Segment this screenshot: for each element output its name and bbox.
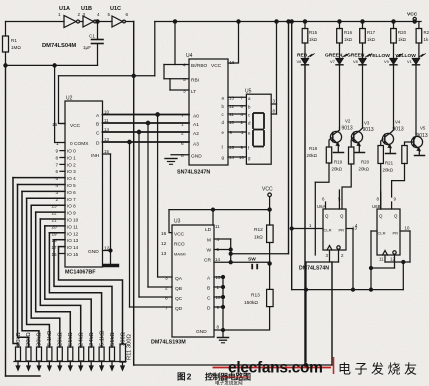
svg-text:8: 8	[273, 109, 276, 114]
wire U6B Q9 upper	[391, 181, 393, 197]
svg-text:GND: GND	[196, 329, 207, 335]
node junction GND pin12	[109, 249, 112, 252]
LED V2 green	[339, 43, 341, 58]
wire QA stub	[158, 276, 172, 278]
resistor R21b base	[402, 146, 407, 164]
transistor V4 9013	[382, 133, 393, 144]
svg-text:VCC: VCC	[407, 12, 418, 18]
resistor RS3	[37, 347, 42, 361]
wire VCC distribution horizontal	[169, 209, 270, 211]
wire bundle stub k8	[49, 232, 65, 234]
svg-text:20kΩ: 20kΩ	[307, 153, 318, 158]
svg-text:7: 7	[241, 96, 244, 101]
wire QB riser to bus A1	[147, 123, 149, 287]
wire bundle k2	[22, 191, 39, 347]
wire R13 top lead	[269, 264, 271, 290]
node junction bus A0	[156, 113, 159, 116]
svg-text:12: 12	[229, 104, 234, 109]
rotated resistor values	[16, 330, 133, 360]
svg-text:51kΩ: 51kΩ	[110, 332, 116, 346]
node junction C1 top	[96, 20, 99, 23]
svg-text:5.1kΩ: 5.1kΩ	[47, 330, 53, 346]
svg-text:2: 2	[56, 197, 59, 202]
wire C1 bottom lead	[97, 44, 99, 65]
wire U6A CLK pin3 down	[329, 250, 331, 262]
wire U3 pin5 up	[214, 249, 231, 251]
svg-text:9013: 9013	[342, 126, 353, 132]
svg-text:10: 10	[239, 155, 244, 160]
svg-text:QD: QD	[175, 306, 183, 312]
svg-text:V5: V5	[420, 126, 426, 131]
node junction R1/feedback	[4, 64, 7, 67]
resistor R12	[267, 225, 274, 243]
wire QB stub	[148, 286, 172, 288]
svg-text:18: 18	[52, 238, 58, 243]
wire U6A Q6 stub	[325, 202, 327, 209]
svg-text:GND: GND	[88, 249, 99, 255]
wire bundle stub k6	[40, 218, 65, 220]
wire resistor row bottom rail	[14, 361, 126, 363]
svg-text:8: 8	[377, 197, 380, 202]
svg-text:图2: 图2	[177, 372, 192, 382]
svg-text:16: 16	[52, 252, 58, 257]
svg-text:15: 15	[52, 122, 58, 128]
resistor RS10	[110, 347, 115, 361]
svg-text:1: 1	[181, 122, 184, 128]
svg-text:22: 22	[52, 211, 58, 216]
wire VCC feed riser to top rail	[154, 22, 156, 76]
svg-text:7: 7	[165, 306, 168, 312]
wire U4 GND stub	[171, 154, 189, 156]
wire up feed vertical	[288, 22, 290, 254]
wire bundle stub k5	[36, 211, 65, 213]
svg-text:30kΩ: 30kΩ	[37, 332, 43, 346]
resistor R17	[362, 22, 364, 29]
wire bundle stub k1	[18, 184, 66, 186]
svg-text:11: 11	[379, 257, 384, 262]
wire bundle k7	[45, 226, 91, 347]
wire U6B D pin12 down	[394, 255, 396, 268]
wire bundle k5	[36, 212, 71, 347]
svg-text:INH: INH	[91, 153, 100, 159]
svg-text:6: 6	[165, 296, 168, 302]
node junction gnd rail	[222, 329, 225, 332]
svg-text:5: 5	[56, 176, 59, 181]
svg-text:VCC: VCC	[211, 63, 222, 69]
svg-text:PR: PR	[339, 228, 345, 233]
node junction rail R20	[392, 20, 395, 23]
svg-text:6: 6	[56, 169, 59, 174]
wire U6A CLR pin1	[292, 228, 323, 230]
svg-text:15: 15	[104, 149, 109, 154]
svg-text:9: 9	[56, 149, 59, 154]
node junction rail at pin16	[237, 20, 240, 23]
svg-text:U4: U4	[186, 53, 193, 59]
svg-text:R15: R15	[309, 30, 318, 35]
wire U6B CLR pin13	[371, 230, 377, 232]
svg-text:QA: QA	[175, 276, 183, 282]
wire U4 out e	[228, 131, 246, 133]
svg-text:RED: RED	[297, 53, 308, 59]
resistor R19 base	[349, 147, 354, 164]
resistor R21	[418, 22, 420, 29]
svg-text:R20: R20	[398, 30, 407, 35]
svg-text:A0: A0	[193, 114, 199, 120]
svg-text:RBI: RBI	[191, 78, 199, 84]
ground V2 emitter	[334, 152, 344, 154]
svg-text:CLR: CLR	[324, 228, 332, 233]
svg-text:7: 7	[56, 162, 59, 167]
wire up/down feed horizontal	[231, 253, 289, 255]
resistor RS2	[26, 347, 31, 361]
inverter U1A	[64, 16, 76, 28]
wire U2 pin C out	[103, 131, 190, 133]
svg-text:3: 3	[183, 89, 186, 95]
wire R1 bottom to node	[5, 52, 7, 65]
wire U4 VCC pin16	[228, 22, 239, 64]
ground U4	[165, 158, 177, 160]
svg-text:9013: 9013	[363, 127, 374, 133]
node junction sw tie	[229, 261, 232, 264]
svg-text:20: 20	[52, 224, 58, 229]
node junction rail R17	[361, 20, 364, 23]
svg-text:R16: R16	[344, 30, 353, 35]
svg-text:R18: R18	[309, 146, 318, 151]
node junction bus A2	[137, 130, 140, 133]
svg-text:CR: CR	[204, 258, 211, 264]
svg-text:R13: R13	[251, 293, 260, 299]
transistor V3 9013	[351, 131, 362, 142]
wire U2 pin15 VCC stub	[60, 123, 65, 125]
wire U4 out a to display	[228, 96, 246, 98]
resistor RS9	[99, 347, 104, 361]
node junction clock/feed	[132, 74, 135, 77]
svg-text:R1: R1	[11, 38, 17, 43]
power VCC symbol mid	[268, 193, 272, 197]
wire U4 pin5 RBI	[164, 78, 189, 80]
svg-text:V1: V1	[407, 59, 412, 64]
wire bundle k4	[31, 205, 60, 347]
wire long left vertical down page	[5, 65, 7, 376]
svg-text:8: 8	[181, 153, 184, 159]
resistor RS8	[89, 347, 94, 361]
svg-text:g: g	[222, 155, 225, 160]
wire top-left rail to U1A input	[6, 21, 65, 23]
wire QA riser to bus A0	[157, 115, 159, 278]
svg-text:IO 10: IO 10	[67, 218, 79, 223]
svg-text:V6: V6	[297, 59, 302, 64]
wire bundle k1	[18, 185, 29, 348]
svg-text:4: 4	[183, 63, 186, 69]
op-amp U3 counter DM74LS193M body	[172, 225, 214, 337]
wire U3 preset D stub	[214, 306, 223, 308]
op-amp U6A flipflop body	[323, 209, 346, 250]
svg-text:VCC: VCC	[174, 232, 185, 238]
svg-text:V8: V8	[353, 59, 358, 64]
resistor RS5	[57, 347, 62, 361]
svg-text:M: M	[207, 238, 211, 244]
node junction clr/U6A	[290, 227, 293, 230]
wire osc out to COMX	[55, 65, 65, 142]
wire display anode riser to rail	[276, 22, 278, 115]
wire R18 jog down	[315, 163, 329, 182]
svg-text:V9: V9	[384, 59, 389, 64]
resistor RS4	[47, 347, 52, 361]
wire U6A D pin2 down	[338, 250, 340, 262]
svg-text:7: 7	[181, 113, 184, 119]
svg-text:VCC: VCC	[70, 123, 81, 129]
svg-text:8: 8	[56, 155, 59, 160]
svg-text:U3: U3	[174, 219, 181, 225]
svg-text:13: 13	[352, 226, 357, 231]
wire bundle k6	[40, 219, 80, 347]
svg-text:IO 9: IO 9	[67, 211, 76, 216]
svg-text:14: 14	[104, 127, 109, 132]
wire U3 preset A stub	[214, 276, 223, 278]
wire bottom-left stub	[6, 375, 41, 377]
node junction rail353	[352, 288, 355, 291]
svg-text:2: 2	[165, 286, 168, 292]
svg-text:Q: Q	[325, 214, 329, 219]
wire U6A clk vertical to bottom	[331, 262, 333, 365]
wire bundle stub k9	[54, 239, 65, 241]
watermark divider	[333, 357, 335, 374]
svg-text:1MΩ: 1MΩ	[11, 45, 21, 50]
svg-text:20kΩ: 20kΩ	[26, 332, 32, 346]
svg-text:IO 1: IO 1	[67, 155, 76, 160]
svg-text:GREEN: GREEN	[325, 53, 343, 59]
svg-text:A3: A3	[193, 142, 199, 148]
wire link pin5-pin3	[169, 79, 171, 90]
resistor R20b base	[378, 146, 383, 164]
inverter U1C	[112, 16, 123, 27]
svg-text:IO 0: IO 0	[67, 149, 76, 154]
clk triangle U6A	[327, 246, 332, 251]
wire U6B PR loop	[409, 231, 411, 262]
svg-text:1kΩ: 1kΩ	[309, 37, 318, 42]
svg-text:b: b	[222, 104, 225, 109]
wire U6B Q9 stub	[391, 202, 393, 209]
wire bundle k3	[27, 198, 50, 347]
svg-text:13: 13	[229, 96, 234, 101]
wire link pin4-pin5	[163, 65, 165, 79]
svg-text:6: 6	[322, 197, 325, 202]
svg-text:IO 13: IO 13	[67, 238, 79, 243]
svg-text:GND: GND	[191, 154, 202, 160]
wire bundle stub k7	[45, 225, 65, 227]
wire bundle stub k4	[31, 204, 65, 206]
svg-text:R21: R21	[424, 30, 429, 35]
svg-text:6: 6	[241, 104, 244, 109]
wire left vertical from rail to R1	[5, 22, 7, 37]
svg-text:1μF: 1μF	[83, 45, 91, 50]
wire U1A out to U1B in	[80, 21, 84, 23]
resistor RS11	[120, 344, 126, 362]
svg-text:R17: R17	[367, 30, 376, 35]
wire U6A PR pin4	[346, 228, 353, 230]
node junction d link	[370, 267, 373, 270]
svg-text:R20: R20	[361, 160, 370, 165]
wire U3 preset C stub	[214, 296, 223, 298]
svg-text:R11 300Ω: R11 300Ω	[127, 334, 133, 360]
svg-text:2: 2	[78, 12, 81, 17]
svg-text:V7: V7	[330, 59, 335, 64]
svg-text:4: 4	[56, 183, 59, 188]
node junction bottom clock	[305, 364, 308, 367]
wire QD riser to bus A3	[129, 142, 131, 307]
node junction presetD	[222, 306, 225, 309]
LED V3 green	[362, 43, 364, 58]
svg-text:6: 6	[126, 12, 129, 17]
svg-text:3: 3	[56, 190, 59, 195]
svg-text:B: B	[96, 122, 99, 128]
svg-text:c: c	[222, 112, 225, 117]
LED V5 yellow	[418, 43, 420, 58]
wire U4 pin3 LT	[170, 89, 189, 91]
wire U6A bottom link	[306, 261, 339, 263]
wire U1B out to U1C in	[97, 21, 113, 23]
svg-text:YELLOW: YELLOW	[395, 53, 416, 59]
svg-text:20kΩ: 20kΩ	[332, 167, 343, 172]
svg-text:PR: PR	[393, 231, 399, 236]
svg-text:14: 14	[215, 257, 220, 262]
svg-text:11: 11	[229, 112, 234, 117]
node junction left out	[305, 288, 308, 291]
svg-text:DM74LS04M: DM74LS04M	[42, 43, 76, 49]
svg-text:CLR: CLR	[378, 231, 386, 236]
wire U1C output to clock vertical	[126, 21, 134, 23]
svg-text:LD: LD	[205, 227, 212, 233]
svg-text:6: 6	[181, 141, 184, 147]
svg-text:DM74LS193M: DM74LS193M	[151, 340, 186, 346]
svg-text:1: 1	[309, 223, 312, 228]
svg-text:VCC: VCC	[262, 187, 273, 193]
wire QC stub	[139, 296, 172, 298]
svg-text:300Ω: 300Ω	[120, 331, 126, 346]
svg-text:R12: R12	[254, 227, 263, 233]
svg-text:11: 11	[104, 118, 109, 123]
resistor R20	[393, 22, 395, 29]
wire R21b to FF Q9	[392, 164, 405, 181]
wire U2 IO stub pins top	[60, 150, 65, 152]
svg-text:5.1kΩ: 5.1kΩ	[99, 330, 105, 346]
node junction bus A1	[146, 121, 149, 124]
svg-text:1kΩ: 1kΩ	[367, 37, 376, 42]
wire QC riser to bus A2	[138, 132, 140, 297]
svg-text:V3: V3	[364, 121, 370, 126]
svg-text:16: 16	[161, 231, 167, 237]
node junction rail at U4 feed	[173, 20, 176, 23]
op-amp U2 multiplexer MC14067BF body	[65, 101, 103, 267]
svg-text:g: g	[248, 156, 251, 161]
node junction rail R16	[338, 20, 341, 23]
wire bundle k0	[13, 178, 18, 347]
svg-text:1: 1	[56, 141, 59, 147]
svg-text:10: 10	[229, 120, 234, 125]
svg-text:9: 9	[394, 197, 397, 202]
svg-text:SN74LS247N: SN74LS247N	[177, 170, 210, 176]
svg-text:9013: 9013	[417, 133, 428, 139]
wire bundle stub k3	[27, 197, 65, 199]
wire U2 INH stub	[103, 153, 111, 155]
svg-text:13: 13	[161, 251, 167, 257]
svg-text:D: D	[96, 141, 100, 147]
svg-text:c: c	[248, 113, 251, 118]
ground U3	[218, 337, 229, 339]
svg-text:IO 5: IO 5	[67, 183, 76, 188]
svg-text:A2: A2	[193, 131, 199, 137]
bubble U6B D	[393, 251, 396, 254]
svg-text:V4: V4	[395, 120, 401, 125]
wire U6B CLR riser	[370, 231, 372, 290]
node junction rail clr feed	[290, 20, 293, 23]
svg-text:11: 11	[215, 224, 220, 229]
node junction SW node	[268, 262, 271, 265]
node junction pin11	[212, 208, 215, 211]
svg-text:1kΩ: 1kΩ	[254, 235, 263, 241]
node junction presetC	[222, 296, 225, 299]
svg-text:U1C: U1C	[110, 6, 121, 12]
svg-text:DM74LS74N: DM74LS74N	[299, 266, 329, 272]
svg-text:W: W	[207, 248, 212, 254]
wire U2 INH/GND vertical	[110, 154, 112, 265]
svg-text:d: d	[248, 121, 251, 126]
svg-text:51kΩ: 51kΩ	[68, 332, 74, 346]
wire U3 pin4 down	[214, 238, 231, 240]
wire U2 pin A out	[103, 114, 190, 116]
wire U4 out d	[228, 121, 246, 123]
svg-text:15: 15	[216, 275, 221, 280]
svg-text:12: 12	[390, 257, 395, 262]
svg-text:3: 3	[83, 12, 86, 17]
svg-text:1kΩ: 1kΩ	[398, 37, 407, 42]
node junction presetB	[222, 286, 225, 289]
wire rail drop to U4 pin4	[174, 22, 176, 65]
svg-text:3: 3	[165, 276, 168, 282]
svg-text:QB: QB	[175, 286, 182, 292]
wire U2 pin B out	[103, 122, 190, 124]
op-amp U4 decoder SN74LS247N body	[189, 59, 228, 165]
wire U6B Q8 up	[380, 192, 382, 209]
wire R13 bottom to gnd rail	[214, 307, 270, 330]
svg-text:12: 12	[104, 246, 110, 252]
svg-text:U6B: U6B	[372, 204, 381, 209]
node junction VCC/dist	[268, 208, 271, 211]
resistor RS7	[79, 347, 84, 361]
svg-text:U2: U2	[66, 96, 73, 102]
svg-text:1kΩ: 1kΩ	[344, 37, 353, 42]
wire preset tie-down vertical	[222, 277, 224, 337]
transistor V5 9013	[411, 136, 422, 147]
svg-text:20kΩ: 20kΩ	[359, 167, 370, 172]
svg-text:U5: U5	[245, 89, 252, 95]
svg-text:e: e	[248, 131, 251, 136]
svg-text:U1A: U1A	[59, 6, 70, 12]
wire bundle stub k0	[13, 177, 65, 179]
svg-text:4: 4	[97, 12, 100, 17]
red strike caption	[221, 376, 250, 378]
node junction bus A3	[128, 140, 131, 143]
svg-text:17: 17	[52, 245, 58, 250]
wire U6B CLK link	[385, 261, 410, 263]
svg-text:1: 1	[58, 12, 61, 17]
ground V4 emitter	[386, 153, 396, 155]
wire U2 VCC drop	[59, 76, 66, 124]
svg-text:IO 8: IO 8	[67, 204, 76, 209]
svg-text:D: D	[207, 306, 211, 312]
watermark strike line	[213, 367, 332, 369]
svg-text:20kΩ: 20kΩ	[16, 332, 22, 346]
